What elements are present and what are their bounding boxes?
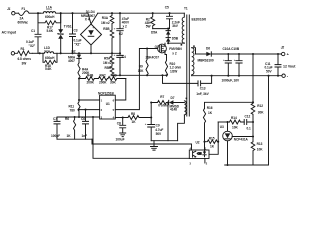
node B junction xyxy=(39,52,41,54)
R6 labels xyxy=(65,117,71,138)
secondary output wire to D6 xyxy=(196,53,207,55)
svg-text:MBRS3100: MBRS3100 xyxy=(198,59,214,63)
svg-text:R8: R8 xyxy=(131,112,135,116)
wire L1B to bridge bottom rail xyxy=(57,52,91,54)
wire drain node to primary bottom xyxy=(168,42,184,44)
wire L1A to bridge rail xyxy=(61,12,88,14)
R3A R3B labels xyxy=(101,16,110,31)
svg-text:R4D: R4D xyxy=(111,73,118,77)
capacitor C7 xyxy=(54,117,60,139)
svg-text:X 4: X 4 xyxy=(85,18,90,22)
C13 labels xyxy=(196,87,209,96)
C11 labels xyxy=(265,62,273,73)
svg-text:U1: U1 xyxy=(106,102,110,106)
mid rail to bulk caps xyxy=(91,52,120,54)
U2 pin numbers xyxy=(190,146,208,165)
R5A R5B labels xyxy=(103,57,112,71)
C3 junction bottom xyxy=(71,52,73,54)
resistor R13 xyxy=(251,137,255,166)
svg-text:F1: F1 xyxy=(22,7,26,11)
resistor R17 parallel with L1A xyxy=(38,13,61,25)
resistor R12 xyxy=(251,102,255,136)
resistor R1 xyxy=(15,51,33,56)
feedback upper horizontal wire xyxy=(205,102,254,108)
Q1 label xyxy=(155,45,159,49)
inductor L1B xyxy=(43,52,57,54)
svg-text:R4B: R4B xyxy=(87,73,94,77)
svg-text:D2: D2 xyxy=(72,49,76,53)
svg-text:0.1: 0.1 xyxy=(247,126,252,130)
R2 labels xyxy=(145,17,151,28)
R11 labels xyxy=(69,105,75,113)
R3B junction bottom xyxy=(111,52,113,54)
C2 plus mark xyxy=(114,26,116,30)
secondary ground return wire xyxy=(268,76,270,165)
capacitor C10B xyxy=(236,54,242,76)
resistor R11 xyxy=(78,79,80,118)
U1 pin1 junction xyxy=(78,99,80,101)
transformer aux winding xyxy=(184,101,186,115)
transformer primary winding xyxy=(182,13,184,43)
C10A C10B labels xyxy=(223,47,240,51)
capacitor C4 xyxy=(117,53,123,75)
VCC filter wire down xyxy=(167,103,169,141)
T1 core label EE20/10/6 xyxy=(192,18,207,22)
capacitor C3 junction top xyxy=(71,12,73,14)
R15 junction right xyxy=(217,141,219,143)
C7 labels xyxy=(51,117,60,138)
C11 junction bottom xyxy=(277,75,279,77)
R17 labels xyxy=(47,26,54,33)
resistor R3B xyxy=(110,30,114,53)
R12 labels xyxy=(257,104,264,114)
U1 pin2 wire xyxy=(79,109,100,111)
svg-text:x 2: x 2 xyxy=(172,52,177,56)
svg-text:600Vac: 600Vac xyxy=(18,21,29,25)
svg-text:3kV: 3kV xyxy=(172,24,178,28)
resistor R4C xyxy=(97,77,109,81)
svg-text:C2: C2 xyxy=(119,32,123,36)
capacitor C1 xyxy=(35,13,41,53)
R2 junction xyxy=(152,12,154,14)
svg-text:R16: R16 xyxy=(207,106,213,110)
svg-text:EE20/10/6: EE20/10/6 xyxy=(192,18,207,22)
primary dot xyxy=(181,44,183,46)
svg-text:1nF, 3kV: 1nF, 3kV xyxy=(196,92,209,96)
svg-text:1nF: 1nF xyxy=(82,134,88,138)
U3 anode junction xyxy=(226,164,228,166)
diode D5B xyxy=(166,38,170,44)
C10A plus xyxy=(223,58,225,62)
svg-text:+: + xyxy=(92,25,94,29)
svg-text:C3: C3 xyxy=(74,29,78,33)
svg-text:D6: D6 xyxy=(206,47,210,51)
resistor R7 xyxy=(151,101,167,105)
C4 junction bottom xyxy=(119,74,121,76)
C2 junction top xyxy=(119,12,121,14)
capacitor C10A xyxy=(225,54,231,76)
U1 pin2 wire xyxy=(79,99,100,101)
C10B junction bottom xyxy=(238,75,240,77)
secondary top wire to D6 xyxy=(192,48,196,54)
svg-text:"X2": "X2" xyxy=(29,44,36,48)
opto bottom pin wire xyxy=(204,159,206,164)
aux winding return wire xyxy=(178,115,185,141)
resistor R4A xyxy=(78,63,80,79)
B+ rail xyxy=(98,12,185,14)
clamp node junction xyxy=(167,28,169,30)
C3 labels xyxy=(74,29,82,47)
R16 labels xyxy=(207,106,213,115)
resistor R18 parallel with L1B xyxy=(43,53,57,64)
capacitor C11 xyxy=(275,54,281,76)
svg-text:100uF: 100uF xyxy=(116,138,125,142)
R9 labels xyxy=(138,64,144,73)
svg-text:30K: 30K xyxy=(110,80,116,84)
feedback tap junction on output xyxy=(252,53,254,55)
bridge labels D1-D4 MRA4007 X 4 xyxy=(81,10,95,22)
svg-text:"X2": "X2" xyxy=(74,43,81,47)
svg-text:R1: R1 xyxy=(21,47,25,51)
L1B label xyxy=(44,46,51,50)
svg-text:50V: 50V xyxy=(156,132,162,136)
C9 labels xyxy=(155,123,163,135)
primary ground bus xyxy=(112,74,167,76)
J1 terminal bottom xyxy=(11,52,14,55)
R15 labels xyxy=(209,136,215,148)
resistor R4D xyxy=(108,77,126,81)
C6 labels xyxy=(81,117,87,138)
ref junction R12 xyxy=(252,135,254,137)
svg-text:10K: 10K xyxy=(257,147,263,151)
C10B junction top xyxy=(238,53,240,55)
svg-text:30K: 30K xyxy=(258,110,264,114)
J2 label xyxy=(281,46,285,50)
C13 tap junction xyxy=(161,74,163,76)
svg-text:R9: R9 xyxy=(139,64,143,68)
fuse F1 value labels xyxy=(18,16,29,24)
svg-text:D5A: D5A xyxy=(151,31,158,35)
D2 labels xyxy=(68,49,76,63)
svg-text:L1D: L1D xyxy=(44,46,51,50)
resistor R9 xyxy=(146,49,148,76)
diode D7 xyxy=(167,100,184,104)
svg-text:C12: C12 xyxy=(245,115,251,119)
R4 chain corner junction xyxy=(78,77,80,79)
wire J1 top to fuse xyxy=(15,12,19,14)
svg-text:AC Input: AC Input xyxy=(2,31,17,35)
svg-text:1M x2: 1M x2 xyxy=(103,61,112,65)
R13 labels xyxy=(257,142,264,151)
U1 label xyxy=(106,102,110,106)
svg-text:J2: J2 xyxy=(281,46,285,50)
Q1 part labels xyxy=(169,47,182,56)
C4 plus mark xyxy=(114,53,116,57)
capacitor C6 xyxy=(83,110,89,140)
diode D5A xyxy=(166,29,170,38)
L1A label xyxy=(46,6,53,10)
svg-text:R14: R14 xyxy=(231,116,237,120)
C10A junction top xyxy=(227,53,229,55)
svg-text:200K: 200K xyxy=(99,80,107,84)
C10A junction bottom xyxy=(227,75,229,77)
C5 value labels xyxy=(172,20,180,28)
shunt regulator U3 xyxy=(223,122,233,165)
C8 labels xyxy=(116,122,125,142)
resistor R14 xyxy=(230,120,245,124)
svg-text:C10A C10B: C10A C10B xyxy=(223,47,240,51)
svg-text:6.8 ohms: 6.8 ohms xyxy=(18,57,32,61)
resistor R6 xyxy=(74,117,76,139)
U3 part label xyxy=(234,138,249,142)
C6 C7 R6 common bottom wire xyxy=(57,138,92,140)
svg-text:U2: U2 xyxy=(196,140,200,144)
feedback tap junction xyxy=(252,101,254,103)
U3 cathode junction xyxy=(226,121,228,123)
svg-text:C9: C9 xyxy=(156,123,160,127)
optocoupler U2 box xyxy=(189,150,209,159)
resistor R4B xyxy=(79,77,97,81)
feedback bottom rail xyxy=(225,164,269,166)
svg-text:J1: J1 xyxy=(7,7,11,11)
J1 terminal top xyxy=(12,12,15,15)
wire R4 chain to U1 pin 6 xyxy=(115,79,126,101)
capacitor C3 xyxy=(70,13,76,53)
C13 junction on ground rail xyxy=(211,75,213,77)
CS filter wire xyxy=(57,116,100,118)
svg-text:5.6K: 5.6K xyxy=(45,67,52,71)
svg-text:C5: C5 xyxy=(165,6,169,10)
12 Vout label xyxy=(283,64,296,68)
T1 label xyxy=(184,7,188,11)
svg-text:C13: C13 xyxy=(200,87,206,91)
svg-text:C4: C4 xyxy=(122,55,126,59)
capacitor C2 bulk xyxy=(117,13,123,53)
Y-capacitor C13 tap from primary ground xyxy=(163,75,199,83)
svg-text:100pF: 100pF xyxy=(51,134,60,138)
bridge bottom junction xyxy=(90,52,92,54)
resistor R16 xyxy=(203,109,205,151)
output wire D6 to J2 xyxy=(211,53,281,55)
svg-text:+: + xyxy=(114,26,116,30)
svg-text:+: + xyxy=(145,122,147,126)
Q1 alt part label xyxy=(146,55,160,59)
C6 junction top xyxy=(84,109,86,111)
C2 value labels xyxy=(122,17,130,28)
aux ground wire xyxy=(151,140,177,142)
R10 ground junction xyxy=(165,74,167,76)
clamp bottom wire xyxy=(153,28,170,30)
R1 labels xyxy=(18,47,32,66)
svg-text:C1: C1 xyxy=(31,29,35,33)
svg-text:T1: T1 xyxy=(184,7,188,11)
C8 junction xyxy=(122,116,124,118)
svg-text:+: + xyxy=(234,58,236,62)
svg-text:C6: C6 xyxy=(81,117,85,121)
VCC filter node junction xyxy=(167,101,169,103)
svg-text:R15: R15 xyxy=(209,136,215,140)
D6 labels xyxy=(198,47,214,63)
capacitor C13 xyxy=(198,76,212,86)
R4D label xyxy=(110,73,117,84)
diode D2 xyxy=(77,53,81,63)
D2 junction xyxy=(78,52,80,54)
C5 junction xyxy=(168,12,170,14)
VCC node junction xyxy=(150,101,152,103)
svg-text:1000uF, 16V: 1000uF, 16V xyxy=(222,78,240,82)
gate pulldown junction xyxy=(146,47,148,49)
svg-text:5W: 5W xyxy=(146,24,151,28)
D5B label xyxy=(172,37,179,41)
U1 pin numbers xyxy=(101,98,115,119)
C10B plus xyxy=(234,58,236,62)
resistor R10 xyxy=(165,58,167,77)
svg-text:200K: 200K xyxy=(87,80,95,84)
C1 labels xyxy=(26,29,36,48)
CS node junction xyxy=(78,116,80,118)
R4B labels xyxy=(87,73,95,84)
U3 label xyxy=(220,125,224,129)
C10 value label xyxy=(222,78,240,82)
secondary dot xyxy=(193,45,195,47)
R9 ground junction xyxy=(146,74,148,76)
svg-text:D5B: D5B xyxy=(172,37,179,41)
secondary ground rail xyxy=(192,75,282,77)
node A junction xyxy=(37,12,39,14)
U1 pin2 junction on R11 line xyxy=(78,109,80,111)
U1 part label xyxy=(98,91,114,95)
compensation wire R14 C12 xyxy=(218,121,229,123)
resistor R5A xyxy=(110,53,114,66)
resistor R15 xyxy=(205,140,219,144)
svg-text:0 ohm: 0 ohm xyxy=(158,104,167,108)
wire R1 to node B xyxy=(32,52,43,54)
C2 junction bottom xyxy=(119,52,121,54)
C12 labels xyxy=(245,115,252,131)
transformer T1 core xyxy=(187,15,190,116)
U2 LED xyxy=(203,150,206,157)
svg-text:C8: C8 xyxy=(117,122,121,126)
opto cathode wire to U3 node xyxy=(209,122,218,154)
svg-text:NCP1251B: NCP1251B xyxy=(98,91,114,95)
gate drive wire from U1 xyxy=(115,49,157,110)
TVS1 junction bottom xyxy=(60,52,62,54)
connector J1 label xyxy=(7,7,11,11)
C5 label xyxy=(165,6,169,10)
C8 ground symbol xyxy=(120,133,126,137)
U3 ref wire xyxy=(232,136,253,138)
diode D6 xyxy=(206,52,211,56)
R14 labels xyxy=(231,116,238,129)
resistor R5B xyxy=(110,66,114,75)
svg-text:+: + xyxy=(223,58,225,62)
R15 junction left xyxy=(203,141,205,143)
svg-text:L1A: L1A xyxy=(46,6,53,10)
U2 label xyxy=(196,140,200,144)
L1B value xyxy=(45,56,55,60)
svg-text:FMV56N: FMV56N xyxy=(169,47,182,51)
svg-text:U3: U3 xyxy=(220,125,224,129)
svg-text:600uH: 600uH xyxy=(45,15,55,19)
wire U1 pin3 node to opto lower xyxy=(93,117,189,158)
R10 labels xyxy=(170,62,182,73)
R6 junction top xyxy=(74,116,76,118)
wire common bottom to opto xyxy=(92,139,192,150)
svg-text:R4C: R4C xyxy=(100,73,107,77)
pin3 opto junction xyxy=(92,116,94,118)
svg-text:1/2W: 1/2W xyxy=(170,69,177,73)
D7 labels xyxy=(170,96,180,112)
clamp capacitor C5 xyxy=(167,13,173,28)
AC Input label xyxy=(2,31,17,35)
svg-text:R6: R6 xyxy=(65,117,69,121)
svg-text:780: 780 xyxy=(70,108,75,112)
TVS1 junction top xyxy=(60,12,62,14)
wire Q1 source to R10 xyxy=(165,55,167,58)
clamp resistor R2 xyxy=(151,13,155,28)
R8 labels xyxy=(131,112,136,124)
fuse F1 label xyxy=(22,7,26,11)
capacitor C9 xyxy=(148,103,155,141)
C9 plus xyxy=(145,122,147,126)
C11 junction top xyxy=(277,53,279,55)
aux winding dot xyxy=(186,98,188,100)
svg-text:D7: D7 xyxy=(171,96,175,100)
svg-text:3W: 3W xyxy=(22,62,27,66)
resistor R8 xyxy=(128,116,151,120)
svg-text:R3A: R3A xyxy=(102,16,109,20)
svg-text:630uH: 630uH xyxy=(45,56,55,60)
transformer secondary winding xyxy=(192,48,194,76)
controller U1 NCP1251B box xyxy=(100,95,116,119)
capacitor C8 xyxy=(120,118,126,134)
svg-text:R7: R7 xyxy=(160,95,164,99)
bridge plus mark xyxy=(92,25,94,29)
R4C labels xyxy=(99,73,107,84)
svg-text:R5A: R5A xyxy=(104,57,111,61)
aux ground symbol xyxy=(151,141,158,150)
MOSFET Q1 xyxy=(158,43,167,54)
svg-text:10K: 10K xyxy=(232,125,238,129)
fuse F1 xyxy=(19,11,29,16)
VCC node junction on R8 wire xyxy=(150,116,152,118)
TVS1 xyxy=(58,13,64,53)
compensation junction on R12 line xyxy=(252,121,254,123)
C2 label xyxy=(119,32,123,36)
svg-text:R12: R12 xyxy=(257,104,263,108)
ground return junction xyxy=(267,75,269,77)
resistor R3A xyxy=(110,13,114,30)
D5A label xyxy=(151,31,158,35)
feedback tap vertical wire xyxy=(252,54,254,102)
L1A value xyxy=(45,15,55,19)
svg-text:4148: 4148 xyxy=(170,108,177,112)
J2 terminal plus xyxy=(282,52,290,57)
svg-text:50V: 50V xyxy=(266,69,272,73)
R7 labels xyxy=(158,95,167,108)
drain node junction xyxy=(167,42,169,44)
U2 phototransistor xyxy=(193,151,202,158)
capacitor C12 xyxy=(244,120,253,125)
svg-text:R13: R13 xyxy=(257,142,263,146)
svg-text:TVS1: TVS1 xyxy=(64,24,72,28)
TVS1 label xyxy=(64,24,72,28)
svg-text:12 Vout: 12 Vout xyxy=(283,64,296,68)
R3A junction xyxy=(111,12,113,14)
J2 terminal minus xyxy=(282,73,289,78)
wire bridge bottom to mid rail xyxy=(90,45,92,53)
wire rail to bridge diagonal xyxy=(88,13,98,24)
